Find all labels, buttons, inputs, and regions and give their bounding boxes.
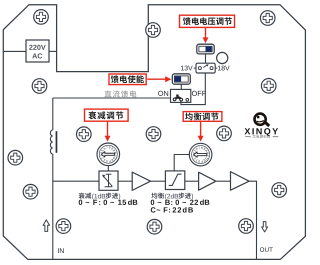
- screw M5: [261, 79, 276, 94]
- wire amp2 to amp3: [216, 180, 231, 182]
- arrow down (output direction): [262, 222, 268, 232]
- arrow red to enable switch: [147, 76, 171, 82]
- arrow red to dial1: [105, 121, 111, 141]
- rotary dial attenuation (0-F): [97, 143, 120, 166]
- wire DC feed (horizontal): [53, 97, 171, 99]
- 220V AC input connector: [26, 40, 49, 62]
- amplifier U1: [132, 172, 150, 190]
- wire equalizer to amp2: [185, 180, 199, 182]
- logo XINQY Q icon: [255, 114, 270, 126]
- switch SW1 feed voltage select (slide): [197, 44, 214, 54]
- screw M6: [8, 150, 23, 165]
- amplifier U3: [231, 172, 250, 191]
- wire dial1 to attenuator: [107, 166, 109, 171]
- amplifier U2: [199, 172, 216, 190]
- arrow red to voltage switch: [203, 27, 209, 43]
- attenuator A1 (variable): [99, 171, 118, 190]
- wire amp3 to RF out: [249, 181, 256, 259]
- wire RF in to attenuator: [53, 180, 99, 182]
- inductor L1 (bias choke): [50, 130, 57, 154]
- screw M1: [34, 10, 49, 25]
- wire dial2 to equalizer: [174, 155, 189, 171]
- arrow up (input direction): [43, 220, 49, 232]
- label 衰减(1dB步进): [79, 193, 121, 200]
- label ON: [158, 91, 168, 96]
- label OUT: [260, 247, 273, 251]
- screw M12: [56, 219, 71, 234]
- wire attenuator to amp1: [118, 180, 132, 182]
- screw M11: [272, 183, 287, 198]
- label 均衡(2dB步进): [151, 193, 193, 200]
- logo tagline 芯启源科技: [245, 135, 278, 138]
- label 馈电电压调节 (feed voltage adjust): [180, 15, 235, 27]
- screw M13: [147, 219, 162, 234]
- equalizer EQ1 (slope): [165, 171, 184, 190]
- wire left vertical (input / bias line): [52, 98, 54, 130]
- wire switch A to potentiometer: [205, 54, 207, 63]
- switch S1 power ON/OFF: [171, 89, 191, 102]
- wire AC feed left stub: [3, 50, 26, 52]
- screw M14: [239, 219, 254, 234]
- label C~F:22dB: [151, 207, 193, 213]
- arrow red to dial2: [198, 121, 204, 141]
- screw M7: [77, 127, 92, 142]
- screw M8: [146, 127, 161, 142]
- wire enable switch to ON/OFF box: [180, 84, 182, 89]
- label 18V: [215, 66, 229, 71]
- label OFF: [192, 91, 206, 96]
- label IN: [58, 248, 64, 253]
- potentiometer RV1 13V-18V: [196, 63, 215, 73]
- label 均衡调节 (equalization adjust): [183, 112, 222, 122]
- indicator hole (circle): [217, 52, 228, 63]
- wire amp1 to equalizer: [151, 180, 166, 182]
- screw M4: [32, 79, 47, 94]
- wire AC feed right stub: [49, 50, 57, 52]
- screw M10: [23, 184, 38, 199]
- label 馈电使能 (feed enable): [109, 74, 146, 85]
- rotary dial equalization (0-F): [189, 143, 212, 166]
- label 衰减调节 (attenuation adjust): [85, 109, 129, 121]
- screw M3: [260, 11, 275, 26]
- logo XINQY wordmark: [244, 128, 278, 136]
- screw M2: [146, 23, 161, 38]
- wire switch bottom to pot: [181, 73, 205, 105]
- label 直流馈电 (DC feed): [105, 90, 137, 97]
- screw M9: [217, 126, 232, 141]
- switch SW2 feed enable (slide): [172, 74, 190, 84]
- label 0~F:0~15dB: [79, 199, 138, 205]
- label 0~B:0~22dB: [151, 199, 210, 205]
- label 13V: [181, 66, 196, 71]
